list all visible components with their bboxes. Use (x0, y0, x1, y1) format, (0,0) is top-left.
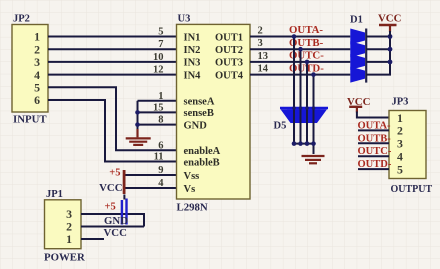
wire JP1.1 VCC (81, 238, 104, 240)
svg-text:D1: D1 (350, 15, 363, 26)
wire U3.OUT1 to D1 (250, 36, 350, 38)
svg-text:OUTC-: OUTC- (358, 146, 392, 157)
svg-text:Vs: Vs (184, 184, 196, 195)
svg-text:3: 3 (258, 38, 263, 49)
wire JP1.3 +5 (81, 214, 144, 227)
power VCC at JP3 (347, 96, 389, 118)
svg-text:13: 13 (258, 51, 269, 62)
svg-text:10: 10 (153, 52, 164, 63)
svg-text:8: 8 (158, 115, 163, 126)
wire D1 row3 to bus (366, 61, 390, 63)
svg-text:1: 1 (66, 232, 72, 246)
wire JP2.2 to U3.IN2 (48, 48, 177, 50)
wire OUT4 down through D5 (313, 75, 315, 144)
svg-text:VCC: VCC (378, 13, 401, 25)
svg-text:IN1: IN1 (184, 32, 201, 43)
wire U3.OUT3 to D1 (250, 61, 350, 63)
svg-text:15: 15 (153, 102, 164, 113)
D1 cathode line (365, 29, 367, 83)
svg-text:L298N: L298N (177, 202, 208, 214)
D5 anode bar (280, 107, 328, 110)
wire U3.senseA stub (138, 100, 177, 102)
wire JP3.3 (358, 142, 389, 144)
wire U3.Vss stub (126, 174, 177, 176)
svg-text:11: 11 (154, 152, 164, 163)
junction bus dots (388, 34, 393, 64)
capacitor plates (121, 199, 128, 225)
svg-text:Vss: Vss (184, 171, 200, 182)
wire JP2.5 to U3.enableA (48, 87, 177, 150)
svg-text:senseB: senseB (184, 108, 214, 119)
wire U3.GND stub (138, 124, 177, 126)
svg-text:senseA: senseA (184, 97, 215, 108)
svg-text:4: 4 (397, 150, 403, 164)
svg-text:GND: GND (184, 120, 208, 131)
wire U3.senseB stub (138, 111, 177, 113)
svg-text:IN3: IN3 (184, 58, 201, 69)
wire D1 row2 to bus (366, 48, 390, 50)
svg-text:9: 9 (158, 165, 163, 176)
wire JP1.2 GND (81, 226, 144, 228)
svg-text:enableB: enableB (184, 157, 220, 168)
svg-text:U3: U3 (178, 14, 191, 25)
svg-text:IN2: IN2 (184, 45, 201, 56)
wire OUT3 down through D5 (306, 62, 308, 144)
svg-text:12: 12 (153, 65, 164, 76)
wire D1 row4 to bus and up (366, 37, 390, 75)
svg-text:6: 6 (34, 93, 40, 107)
svg-text:14: 14 (258, 64, 269, 75)
svg-text:OUT3: OUT3 (215, 58, 243, 69)
wire sense common vertical (137, 101, 139, 131)
svg-text:JP2: JP2 (13, 14, 30, 25)
svg-text:OUT4: OUT4 (215, 70, 244, 81)
connector JP2 (12, 14, 48, 126)
svg-text:6: 6 (158, 140, 163, 151)
svg-text:4: 4 (158, 178, 164, 189)
wire JP2.3 to U3.IN3 (48, 61, 177, 63)
connector JP3 (389, 97, 433, 196)
diode array D5 (274, 108, 329, 132)
connector JP1 (44, 189, 85, 264)
svg-text:+5: +5 (105, 202, 116, 213)
ground near U3 (126, 129, 151, 145)
wire JP3.5 (358, 168, 389, 170)
wire U3.OUT4 to D1 (250, 74, 350, 76)
svg-text:OUT2: OUT2 (215, 45, 243, 56)
svg-text:OUTPUT: OUTPUT (391, 184, 433, 195)
wire JP2.1 to U3.IN1 (48, 36, 177, 38)
svg-text:INPUT: INPUT (13, 113, 47, 125)
svg-text:VCC: VCC (99, 182, 122, 194)
wire JP3.2 (358, 129, 389, 131)
wire JP2.4 to U3.IN4 (48, 74, 177, 76)
wire D5 bottom common (294, 144, 314, 154)
svg-text:OUTB-: OUTB- (358, 133, 392, 144)
svg-text:D5: D5 (274, 121, 287, 132)
svg-text:POWER: POWER (44, 252, 85, 264)
wire D1 row1 to bus (366, 36, 390, 38)
diode array D1 (350, 15, 366, 83)
svg-text:2: 2 (258, 26, 263, 37)
ground below D5 (302, 156, 325, 163)
svg-text:3: 3 (397, 137, 403, 151)
svg-text:1: 1 (397, 111, 403, 125)
svg-text:OUT1: OUT1 (215, 32, 243, 43)
svg-text:JP3: JP3 (392, 97, 409, 108)
svg-text:enableA: enableA (184, 146, 221, 157)
svg-text:OUTD-: OUTD- (358, 159, 392, 170)
svg-text:2: 2 (397, 124, 403, 138)
capacitor stub (123, 195, 125, 200)
svg-text:7: 7 (158, 39, 163, 50)
svg-text:IN4: IN4 (184, 70, 202, 81)
power VCC top right (378, 13, 401, 37)
wire OUT2 down through D5 (300, 49, 302, 143)
D5 diode triangles (281, 109, 328, 123)
wire JP3.4 (358, 155, 389, 157)
svg-text:5: 5 (397, 162, 403, 176)
svg-text:VCC: VCC (104, 227, 127, 239)
svg-text:+5: +5 (109, 168, 120, 179)
junction dots (292, 34, 316, 146)
svg-text:1: 1 (158, 91, 163, 102)
svg-text:5: 5 (158, 27, 163, 38)
junction senseB (135, 110, 140, 115)
wire U3.Vs stub (126, 187, 177, 189)
svg-text:GND: GND (104, 215, 128, 227)
svg-text:JP1: JP1 (46, 189, 63, 200)
wire OUT1 down through D5 (293, 37, 295, 144)
power bar +5/VCC at U3 (123, 170, 126, 194)
svg-text:OUTA-: OUTA- (358, 120, 392, 131)
junction GND (135, 122, 140, 127)
wire JP2.6 to U3.enableB (48, 100, 177, 162)
IC U3 L298N (153, 14, 269, 214)
wire U3.OUT2 to D1 (250, 48, 350, 50)
